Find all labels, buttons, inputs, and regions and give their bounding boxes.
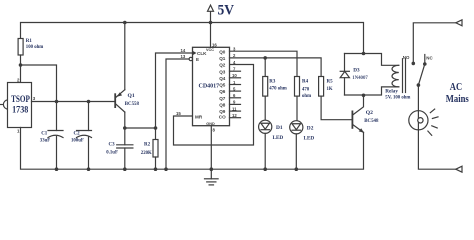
svg-text:12: 12 — [232, 113, 237, 118]
sensor TSOP1738 U1 — [1, 78, 36, 134]
svg-text:Q9: Q9 — [219, 109, 226, 114]
svg-text:1K: 1K — [327, 87, 333, 92]
svg-text:1: 1 — [17, 129, 20, 134]
capacitor C2 — [71, 102, 92, 170]
svg-text:ohm: ohm — [302, 94, 311, 99]
capacitor C1 — [40, 102, 63, 170]
wire common to lamp — [417, 85, 419, 111]
resistor R5 — [319, 77, 352, 120]
wire R3 drop — [264, 58, 266, 77]
svg-text:BC558: BC558 — [125, 102, 140, 107]
node C2 ground — [87, 167, 91, 171]
node R1/TSOP junction — [19, 63, 23, 67]
svg-text:Q3: Q3 — [219, 69, 226, 74]
svg-text:C3: C3 — [109, 143, 116, 148]
svg-text:LED: LED — [273, 135, 284, 141]
wire relay loop top — [345, 54, 399, 66]
node 5V relay junction — [362, 52, 366, 56]
svg-text:Q7: Q7 — [219, 96, 226, 101]
wire TSOP pin3 output line — [32, 101, 115, 103]
svg-text:Q0: Q0 — [219, 49, 226, 54]
svg-text:VCC: VCC — [206, 48, 214, 52]
wire relay loop bottom — [345, 87, 399, 95]
svg-text:Q8: Q8 — [219, 103, 226, 108]
svg-text:33uF: 33uF — [40, 139, 50, 144]
node GND rail junction — [210, 167, 214, 171]
svg-text:2: 2 — [17, 78, 20, 83]
wire E from ground to IC pin13 — [166, 59, 189, 169]
wire CLK from junction to IC pin14 — [156, 53, 193, 128]
svg-text:E: E — [196, 57, 199, 62]
svg-text:NO: NO — [403, 55, 410, 60]
wire VCC pin16 to rail — [210, 23, 212, 48]
wire ground rail — [21, 128, 364, 170]
resistor R2 — [141, 128, 158, 169]
op-amp U2 CD4017 counter IC — [189, 47, 229, 126]
svg-text:Q1: Q1 — [128, 93, 135, 99]
node Q1 rail junction — [123, 21, 127, 25]
wire Q1 emitter to 5V rail — [124, 23, 126, 90]
switch SW relay contacts — [403, 55, 434, 87]
node VCC junction — [209, 21, 213, 25]
svg-text:R4: R4 — [302, 80, 309, 85]
wire MR to Q2out pin4 loop — [174, 65, 254, 146]
svg-text:15: 15 — [176, 111, 181, 116]
transistor Q1 BC558 — [114, 90, 139, 112]
node R2/CLK junction — [154, 126, 158, 130]
node E ground — [164, 167, 168, 171]
power 5V supply arrow — [208, 3, 235, 23]
wire Q1 collector down and right — [125, 112, 156, 128]
svg-text:100 ohm: 100 ohm — [26, 45, 43, 50]
diode D3 1N4007 — [340, 54, 368, 96]
node pin2/R3 junction — [263, 56, 267, 60]
svg-text:D3: D3 — [353, 68, 360, 74]
svg-text:TSOP: TSOP — [11, 95, 30, 105]
svg-text:Q5: Q5 — [219, 83, 226, 88]
wire R1 bottom to TSOP pin2 — [20, 55, 22, 83]
ground symbol — [205, 169, 219, 185]
svg-text:R5: R5 — [327, 80, 334, 85]
svg-text:Q4: Q4 — [219, 76, 226, 81]
svg-text:8: 8 — [213, 128, 216, 133]
svg-text:3: 3 — [33, 96, 36, 101]
wire top 5V rail — [21, 23, 364, 54]
resistor R1 — [18, 39, 43, 56]
wire junction branch to output line — [21, 65, 57, 102]
node C3 ground — [123, 167, 127, 171]
svg-text:NC: NC — [426, 56, 433, 61]
svg-text:R2: R2 — [144, 142, 151, 147]
capacitor C3 — [106, 128, 133, 169]
connector arrow bottom — [456, 166, 462, 172]
svg-text:1N4007: 1N4007 — [352, 76, 368, 81]
svg-text:Q2: Q2 — [366, 110, 373, 116]
node D1 ground — [263, 167, 267, 171]
svg-text:16: 16 — [212, 43, 217, 48]
wire Q0 pin3 to R4 — [230, 51, 298, 76]
svg-text:AC: AC — [450, 82, 462, 93]
svg-text:CO: CO — [219, 115, 226, 120]
svg-text:Mains: Mains — [446, 93, 470, 105]
svg-text:14: 14 — [181, 48, 186, 53]
svg-text:10: 10 — [232, 73, 237, 78]
node C1 tap — [55, 100, 59, 104]
wire NO contact to AC arrow — [413, 23, 456, 64]
transistor Q2 BC548 — [352, 95, 379, 133]
svg-text:11: 11 — [232, 106, 237, 111]
node C2 tap — [87, 100, 91, 104]
svg-text:Relay: Relay — [385, 88, 398, 94]
svg-text:D2: D2 — [307, 126, 314, 132]
svg-text:LED: LED — [304, 135, 315, 141]
node C1 ground — [55, 167, 59, 171]
svg-text:C1: C1 — [41, 131, 48, 136]
lamp L1 — [409, 109, 456, 169]
resistor R3 — [263, 77, 287, 121]
inductor relay coil K1 — [385, 59, 410, 101]
svg-text:0.1uF: 0.1uF — [106, 150, 118, 155]
svg-text:5V: 5V — [218, 3, 235, 19]
wire GND pin8 down — [210, 126, 212, 170]
node Q2 collector junction — [362, 94, 366, 98]
svg-text:100uF: 100uF — [71, 139, 84, 144]
node Q1/C3 junction — [123, 126, 127, 130]
svg-text:MR: MR — [195, 115, 203, 120]
svg-text:5V, 100 ohm: 5V, 100 ohm — [385, 96, 410, 101]
resistor R4 — [295, 77, 312, 121]
svg-text:1738: 1738 — [12, 106, 28, 116]
svg-text:220K: 220K — [141, 151, 152, 156]
node R2 ground — [154, 167, 158, 171]
svg-text:BC548: BC548 — [364, 119, 379, 124]
svg-text:13: 13 — [181, 54, 186, 59]
IC right pin stubs with numbers — [230, 47, 241, 119]
svg-text:Q1: Q1 — [219, 56, 226, 61]
svg-text:GND: GND — [206, 122, 215, 126]
svg-text:R1: R1 — [26, 39, 33, 44]
LED D1 — [259, 120, 284, 169]
svg-text:470: 470 — [302, 88, 310, 93]
svg-text:Q2: Q2 — [219, 63, 226, 68]
svg-text:R3: R3 — [269, 80, 276, 85]
svg-text:C2: C2 — [74, 131, 81, 136]
svg-text:D1: D1 — [276, 125, 283, 131]
node D2 ground — [295, 167, 299, 171]
connector arrow top — [456, 20, 462, 26]
svg-text:CD4017: CD4017 — [199, 84, 220, 90]
text AC Mains — [446, 82, 470, 105]
svg-text:470 ohm: 470 ohm — [269, 87, 286, 92]
LED D2 — [290, 121, 315, 169]
wire Q1 pin2 to R3 and R5 — [230, 58, 322, 77]
svg-text:Q6: Q6 — [219, 89, 226, 94]
